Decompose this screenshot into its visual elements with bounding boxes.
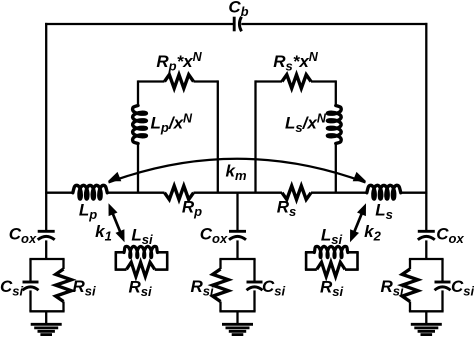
wire si-p loop top-right bbox=[158, 251, 169, 254]
wire skin-effect loop P right side bbox=[217, 80, 219, 192]
wire skin-effect loop S right upper bbox=[335, 80, 337, 105]
wire top-right segment (Cb to node 2) bbox=[241, 23, 427, 25]
arrowhead km left bbox=[108, 172, 122, 181]
capacitor Cox3 curved plate bbox=[418, 236, 435, 239]
coupling arc km bbox=[109, 159, 366, 183]
wire skin-effect loop S top-right bbox=[311, 80, 336, 82]
arrowhead k1 bottom bbox=[116, 229, 125, 242]
wire Rsi3 branch upper bbox=[409, 259, 411, 269]
wire skin-effect loop S left side bbox=[254, 80, 256, 192]
inductor Ls bbox=[367, 185, 401, 199]
wire si-s loop left side bbox=[305, 252, 308, 269]
capacitor Cox2 straight plate bbox=[229, 230, 246, 233]
wire si-s loop bottom-right bbox=[345, 268, 359, 271]
wire si-p loop top-left bbox=[115, 251, 124, 254]
coupling arrow k2 shaft bbox=[353, 211, 363, 236]
capacitor Cox1 curved plate bbox=[38, 236, 55, 239]
wire Rsi1 branch lower bbox=[62, 302, 64, 312]
wire Rs to Ls bbox=[311, 192, 367, 194]
wire skin-effect loop P left upper bbox=[137, 80, 139, 105]
wire Cox3 to substrate block 3 bbox=[425, 240, 427, 259]
ground 2 bar 2 bbox=[226, 326, 250, 329]
wire secondary node down to Cox3 bbox=[425, 193, 427, 231]
wire primary node down to Cox1 bbox=[45, 193, 47, 231]
wire si-p loop right side bbox=[166, 252, 169, 269]
inductor Lp bbox=[73, 185, 108, 199]
wire Csi2 branch lower bbox=[253, 290, 255, 311]
ground 1 bar 4 bbox=[40, 333, 52, 336]
wire Cox1 to substrate block 1 bbox=[45, 240, 47, 259]
wire Csi1 branch lower bbox=[29, 290, 31, 311]
capacitor Cox3 straight plate bbox=[418, 230, 435, 233]
arrowhead km right bbox=[353, 172, 367, 181]
wire Rp to Rs (centre tap) bbox=[194, 192, 283, 194]
wire substrate block 1 top bbox=[29, 258, 64, 260]
resistor Rp bbox=[165, 186, 194, 200]
ground 2 bar 3 bbox=[229, 330, 246, 333]
wire substrate block 2 top bbox=[219, 258, 255, 260]
ground 3 bar 1 bbox=[411, 323, 442, 326]
wire Cox2 to substrate block 2 bbox=[236, 240, 238, 259]
wire Rsi2 branch upper bbox=[219, 259, 221, 269]
wire Csi3 branch lower bbox=[441, 290, 443, 311]
capacitor Cb curved plate bbox=[239, 17, 241, 32]
inductor Lp/x^N bbox=[133, 106, 147, 144]
inductor Ls/x^N bbox=[327, 106, 341, 144]
wire skin-effect loop P top-left bbox=[138, 80, 165, 82]
wire Rsi3 branch lower bbox=[409, 302, 411, 312]
wire substrate block 2 bottom bbox=[219, 310, 255, 312]
capacitor Csi3 curved plate bbox=[435, 287, 451, 290]
coupling arrow k1 shaft bbox=[112, 211, 122, 236]
wire substrate block 1 bottom bbox=[29, 310, 64, 312]
resistor Rsi3 bbox=[402, 269, 418, 302]
capacitor Csi2 curved plate bbox=[247, 287, 263, 290]
capacitor Csi3 straight plate bbox=[435, 281, 451, 284]
ground 3 stem bbox=[425, 311, 427, 324]
ground 1 stem bbox=[45, 311, 47, 324]
inductor Lsi-s bbox=[314, 246, 348, 257]
wire si-s loop top-right bbox=[348, 251, 359, 254]
inductor Lsi-p bbox=[124, 246, 158, 257]
arrowhead k1 top bbox=[109, 203, 118, 216]
wire top-left segment (node 1 to Cb) bbox=[45, 23, 234, 25]
ground 1 bar 2 bbox=[34, 326, 58, 329]
wire skin-effect loop P left lower bbox=[137, 144, 139, 193]
wire si-p loop bottom-left bbox=[115, 268, 127, 271]
ground 2 bar 1 bbox=[222, 323, 253, 326]
resistor Rsi-s (substrate) bbox=[317, 262, 345, 276]
wire Csi1 branch upper bbox=[29, 259, 31, 283]
resistor Rp*x^N bbox=[165, 75, 194, 89]
wire left vertical (node 1 down to primary) bbox=[45, 23, 47, 193]
capacitor Cox2 curved plate bbox=[229, 236, 246, 239]
wire Lp to Rp bbox=[107, 192, 164, 194]
resistor Rsi-p (substrate) bbox=[127, 262, 155, 276]
capacitor Csi1 straight plate bbox=[23, 281, 39, 284]
wire centre tap down to Cox2 bbox=[236, 193, 238, 231]
wire Csi2 branch upper bbox=[253, 259, 255, 283]
capacitor Cb straight plate bbox=[233, 17, 236, 32]
capacitor Cox1 straight plate bbox=[38, 230, 55, 233]
resistor Rsi2 bbox=[213, 269, 229, 302]
wire si-p loop left side bbox=[115, 252, 118, 269]
wire si-s loop right side bbox=[356, 252, 359, 269]
wire Csi3 branch upper bbox=[441, 259, 443, 283]
wire skin-effect loop S top-left bbox=[256, 80, 283, 82]
wire Ls to secondary node bbox=[401, 192, 428, 194]
ground 3 bar 3 bbox=[418, 330, 435, 333]
wire primary node to Lp bbox=[45, 192, 73, 194]
ground 1 bar 1 bbox=[31, 323, 62, 326]
arrowhead k2 top bbox=[357, 203, 366, 216]
resistor Rs*x^N bbox=[282, 75, 311, 89]
wire Rsi2 branch lower bbox=[219, 302, 221, 312]
ground 3 bar 2 bbox=[414, 326, 438, 329]
capacitor Csi2 straight plate bbox=[247, 281, 263, 284]
ground 3 bar 4 bbox=[421, 333, 433, 336]
resistor Rsi1 bbox=[56, 269, 72, 302]
ground 2 bar 4 bbox=[232, 333, 244, 336]
arrowhead k2 bottom bbox=[350, 229, 359, 242]
ground 2 stem bbox=[236, 311, 238, 324]
resistor Rs bbox=[282, 186, 311, 200]
wire skin-effect loop S right lower bbox=[335, 144, 337, 193]
wire skin-effect loop P top-right bbox=[194, 80, 218, 82]
wire si-p loop bottom-right bbox=[155, 268, 169, 271]
capacitor Csi1 curved plate bbox=[23, 287, 39, 290]
ground 1 bar 3 bbox=[38, 330, 55, 333]
wire si-s loop bottom-left bbox=[305, 268, 317, 271]
wire si-s loop top-left bbox=[305, 251, 314, 254]
wire substrate block 3 bottom bbox=[409, 310, 444, 312]
wire substrate block 3 top bbox=[409, 258, 444, 260]
wire Rsi1 branch upper bbox=[62, 259, 64, 269]
wire right vertical (node 2 down to secondary) bbox=[425, 23, 427, 193]
